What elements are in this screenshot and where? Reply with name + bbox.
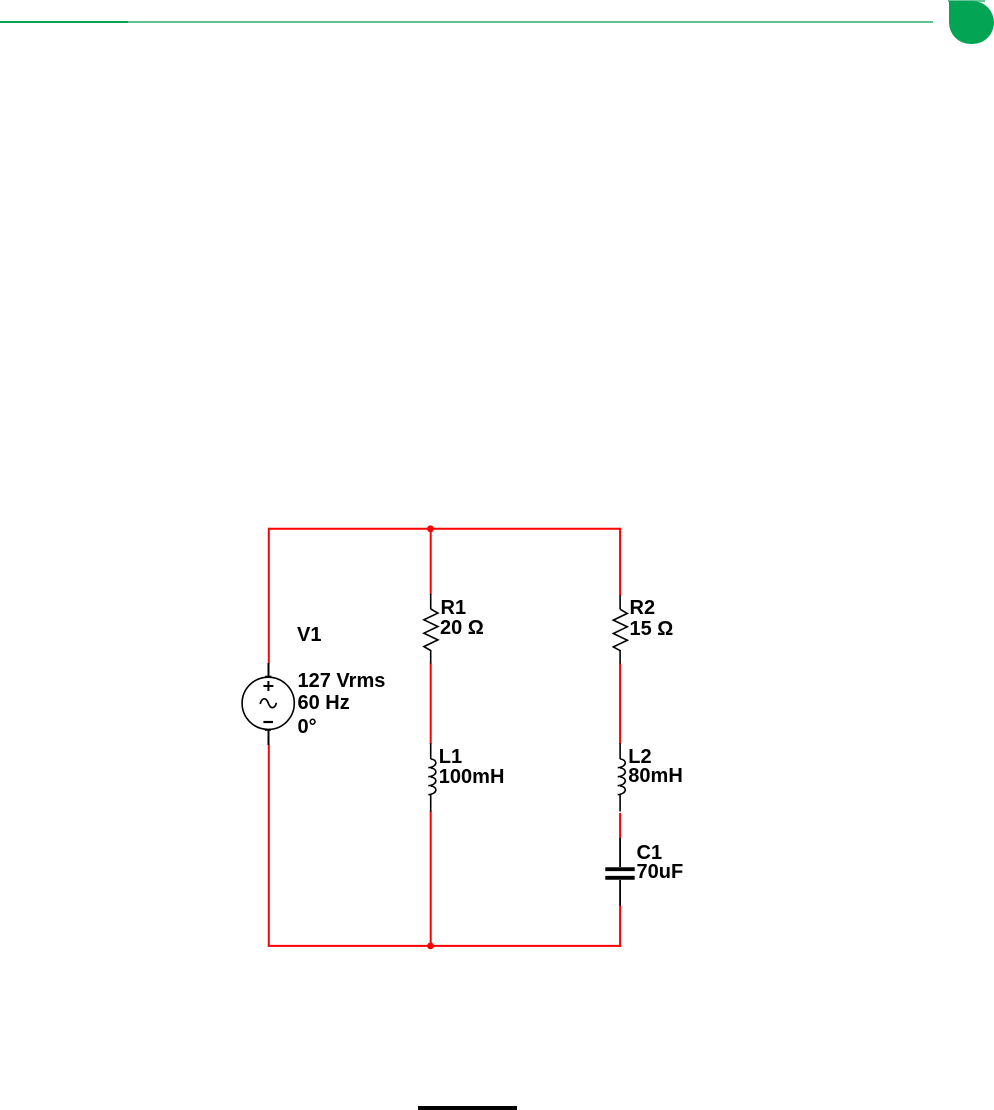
- header rule light green segment: [128, 21, 933, 23]
- wire: middle branch above R1: [430, 529, 432, 595]
- wire: middle branch R1 to L1: [430, 663, 432, 744]
- resistor R1: [424, 594, 438, 664]
- label R2: [630, 598, 656, 618]
- label L1: [439, 747, 462, 767]
- label C1: [637, 843, 663, 863]
- resistor R2: [613, 596, 627, 664]
- wire: right branch R2 to L2: [619, 663, 621, 744]
- capacitor C1: [605, 838, 634, 906]
- wire: middle branch below L1: [430, 811, 432, 946]
- green corner blob: [949, 1, 994, 44]
- V1 top pin: [268, 663, 270, 677]
- C1 plate 1: [605, 867, 634, 871]
- junction bottom node: [427, 943, 434, 950]
- wire: right branch below C1: [619, 905, 621, 947]
- wire: right vertical above R2: [619, 528, 621, 596]
- wire: right branch L2 to C1: [619, 813, 621, 838]
- label V1 value line 3: [298, 717, 317, 737]
- label C1 value: [637, 862, 684, 882]
- label R1: [441, 598, 467, 618]
- V1 bottom pin: [268, 730, 270, 745]
- V1 sine symbol: [260, 699, 276, 708]
- V1 minus sign: [263, 721, 273, 723]
- wire: top horizontal net: [269, 528, 620, 530]
- label R1 value: [440, 618, 484, 638]
- V1 top pin end cap: [265, 676, 271, 678]
- label R2 value: [630, 619, 674, 639]
- label V1 value line 1: [298, 671, 386, 691]
- label V1 value line 2: [298, 693, 350, 713]
- label L1 value: [439, 767, 505, 787]
- inductor L2: [618, 743, 626, 811]
- green corner blob light top strip: [948, 0, 985, 2]
- V1 bottom pin end cap: [265, 729, 271, 731]
- label V1: [297, 625, 321, 645]
- wire: bottom horizontal net: [268, 945, 620, 947]
- junction top node: [427, 525, 434, 532]
- bottom scrollbar fragment: [418, 1106, 517, 1110]
- voltage source V1: [242, 663, 294, 745]
- inductor L1: [428, 743, 436, 811]
- label L2: [628, 747, 651, 767]
- wire: left vertical above V1: [268, 528, 270, 664]
- wire: left vertical below V1: [268, 745, 270, 947]
- C1 plate 2: [605, 876, 634, 880]
- V1 body circle: [242, 677, 294, 729]
- header rule dark green segment: [0, 21, 128, 23]
- V1 plus sign: [263, 681, 273, 691]
- label L2 value: [628, 766, 682, 786]
